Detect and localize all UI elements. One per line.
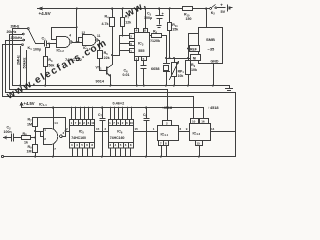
svg-text:100p: 100p <box>33 48 42 52</box>
NAND gate IC1-3 <box>83 35 99 46</box>
wire gate IC1-1 input2 <box>41 132 44 137</box>
pin box 7 <box>130 49 135 53</box>
node ground rail dots <box>34 156 36 158</box>
svg-text:15: 15 <box>197 142 201 146</box>
svg-text:C7: C7 <box>98 113 102 118</box>
svg-text:10: 10 <box>130 121 134 125</box>
svg-text:+4.5V: +4.5V <box>39 11 52 16</box>
wire bus C right drop to pin14 <box>211 93 236 132</box>
potentiometer RP1 10k <box>170 59 179 86</box>
capacitor C8 <box>144 108 150 157</box>
pin box 1 <box>135 57 139 61</box>
resistor R4 4.7k <box>110 9 115 65</box>
svg-text:10k: 10k <box>191 68 197 72</box>
wire 555 pin8 to rail <box>145 9 147 29</box>
pin box 6 <box>130 42 135 46</box>
wire 555 trigger ladder <box>113 36 130 56</box>
node C1 R3 tap <box>48 43 50 45</box>
svg-text:4.7k: 4.7k <box>102 22 109 26</box>
wire node line y58 <box>167 58 191 60</box>
IC3 555 timer box <box>113 9 150 86</box>
wire rail to feedback node <box>76 9 78 43</box>
svg-text:↑4518: ↑4518 <box>162 105 173 110</box>
svg-text:10k: 10k <box>178 74 184 78</box>
wire contact3 to bus C <box>6 41 23 93</box>
wires IC5 top pins to rail <box>72 108 93 120</box>
svg-text:10: 10 <box>91 121 95 125</box>
svg-text:−35: −35 <box>208 47 216 52</box>
svg-text:10: 10 <box>192 120 196 124</box>
svg-text:GND: GND <box>211 60 219 64</box>
pin box NI <box>191 55 201 61</box>
wire gate1 upper input <box>52 39 57 41</box>
svg-text:120k: 120k <box>152 39 160 43</box>
node arrow bottom +4.5V <box>21 105 23 108</box>
wire bus B <box>10 89 168 91</box>
svg-text:0.01: 0.01 <box>123 73 130 77</box>
svg-text:74HC160: 74HC160 <box>110 136 125 140</box>
svg-text:1M: 1M <box>27 150 32 154</box>
svg-text:20kHz: 20kHz <box>7 30 17 34</box>
resistor R10 (150) in top rail <box>183 7 193 11</box>
display module SMB-35 <box>190 9 223 86</box>
svg-text:+: + <box>220 2 223 7</box>
wire IC4-2 pin15 to ground <box>199 146 201 157</box>
wire contact4 to bus D <box>3 45 22 97</box>
wire 555 pin5 to C6 <box>143 62 145 66</box>
svg-text:15k: 15k <box>172 28 178 32</box>
svg-text:4: 4 <box>69 34 71 38</box>
pin box 4 <box>135 29 139 33</box>
node rail dots <box>76 8 78 10</box>
wire gate2 upper input stub <box>79 38 83 43</box>
NAND gate IC1-1 <box>44 129 63 145</box>
counter IC6 74HC160 <box>109 108 158 157</box>
svg-text:12: 12 <box>82 31 86 35</box>
wire contact1 to bus A <box>13 29 28 86</box>
wire top +4.5V rail <box>38 8 210 10</box>
rotary switch K1 contacts <box>22 28 45 46</box>
capacitor C1 100p <box>45 41 57 47</box>
NAND gate IC1-2 <box>57 37 73 48</box>
wire ground rail bottom <box>1 155 235 157</box>
resistor R5 22k <box>98 41 106 71</box>
pin box REF <box>190 46 200 52</box>
resistor R7 12k (rail to 555) <box>121 9 125 36</box>
wire module GND pin <box>213 64 215 86</box>
resistor R9 10k <box>186 34 199 86</box>
capacitor C5 100u electrolytic <box>156 9 164 28</box>
svg-text:15: 15 <box>135 127 139 131</box>
svg-text:15: 15 <box>96 127 100 131</box>
svg-text:C8: C8 <box>143 113 147 118</box>
svg-text:REF: REF <box>190 47 197 51</box>
wire gate IC1-1 pin14 to rail <box>53 108 55 129</box>
wire feedback over gate1 <box>52 28 77 40</box>
wire 555 pin1 to bus A <box>136 62 138 86</box>
wire bus C drop to ground rail <box>235 132 237 157</box>
node bus A dots <box>19 85 21 87</box>
wire bottom +4.5V rail <box>22 108 204 119</box>
svg-text:22k: 22k <box>104 56 110 60</box>
wire IC4-1 to IC4-2 <box>179 131 190 133</box>
svg-text:↑4518: ↑4518 <box>208 105 219 110</box>
wire IC5 to IC6 <box>96 131 109 133</box>
svg-text:100μ: 100μ <box>144 16 152 20</box>
counter IC5 74HC160 <box>70 108 109 157</box>
svg-text:+4.5V: +4.5V <box>24 101 35 106</box>
wire bus D <box>3 96 194 98</box>
wire bus D drop to IC4-2 pin10 <box>193 97 195 119</box>
svg-text:16: 16 <box>201 120 205 124</box>
svg-text:5V: 5V <box>221 10 226 14</box>
wire bus A <box>13 85 230 87</box>
svg-text:100n: 100n <box>4 130 12 134</box>
resistor R3 56k <box>44 44 50 86</box>
node gate1 bottom area dots <box>34 130 36 132</box>
wire contact2 to bus B <box>10 35 23 90</box>
wires IC6 bottom pins to ground <box>111 148 131 157</box>
node bottom rail dots <box>52 107 54 109</box>
svg-text:11: 11 <box>97 34 101 38</box>
node 555 trigger <box>122 35 124 37</box>
wire gate IC1-1 pin7 to ground <box>53 145 55 157</box>
svg-text:74HC160: 74HC160 <box>71 136 86 140</box>
node y58 line <box>165 57 167 59</box>
svg-text:555: 555 <box>138 49 144 53</box>
capacitor C6 0.01 <box>141 66 147 86</box>
node feedback junction <box>76 26 78 28</box>
resistor R11 15k <box>168 9 172 59</box>
pin box 2 <box>130 34 135 39</box>
wire bus B drop to IC4-1 pin2 <box>167 90 169 121</box>
input terminal arrow <box>4 136 12 140</box>
divider IC4-2 4518 <box>190 119 211 157</box>
node REF junction <box>187 48 189 50</box>
svg-text:SMB: SMB <box>206 37 215 42</box>
svg-text:0.46×2: 0.46×2 <box>113 102 125 106</box>
divider IC4-1 4518 <box>158 121 190 157</box>
wire 50kHz vertical <box>26 51 28 86</box>
pin box 8 <box>144 29 148 33</box>
wire gate1 output to gate2 <box>73 42 83 44</box>
svg-text:14: 14 <box>211 127 215 131</box>
resistor R8 1k <box>22 136 36 140</box>
wire bus C <box>6 92 236 94</box>
svg-text:150: 150 <box>186 17 192 21</box>
svg-text:NI: NI <box>193 56 196 60</box>
svg-text:9014: 9014 <box>96 80 105 84</box>
pin box 5 <box>142 57 147 61</box>
wire IC6 to IC4-1 <box>134 131 158 133</box>
svg-text:2MHz: 2MHz <box>16 55 20 65</box>
node input ground terminal <box>1 155 3 157</box>
svg-text:2MHz: 2MHz <box>11 25 20 29</box>
switch K1 wiper <box>29 30 45 44</box>
wires IC5 bottom pins to ground <box>73 148 93 157</box>
watermark www.elecfans.com <box>4 0 149 102</box>
wires IC6 top pins to rail <box>111 108 132 120</box>
crystal B 6658 <box>164 36 170 86</box>
transistor VT1 9014 <box>107 65 113 86</box>
wire gate IC1-1 output <box>63 132 70 137</box>
svg-text:6658: 6658 <box>151 67 159 71</box>
capacitor C7 <box>100 108 106 157</box>
svg-text:1M: 1M <box>27 122 32 126</box>
wire 555 pin4 to rail <box>136 9 138 29</box>
wire IC4-1 pin7 pin8 to ground <box>162 146 167 157</box>
svg-text:12k: 12k <box>125 21 131 25</box>
svg-text:50kHz: 50kHz <box>23 57 27 68</box>
capacitor C2 100n <box>12 134 22 142</box>
svg-text:14: 14 <box>54 121 58 125</box>
node arrowhead +4.5V rail left end <box>38 7 43 11</box>
ground symbol right end bus A <box>226 86 233 93</box>
resistor R6 120k <box>150 34 167 38</box>
resistor R7b 1M feedback <box>33 118 66 145</box>
switch K2 battery <box>210 5 233 12</box>
wire 2MHz vertical <box>20 47 22 86</box>
wire gate IC1-1 input1 <box>36 131 44 133</box>
resistor R9b 1M lower <box>33 145 38 157</box>
